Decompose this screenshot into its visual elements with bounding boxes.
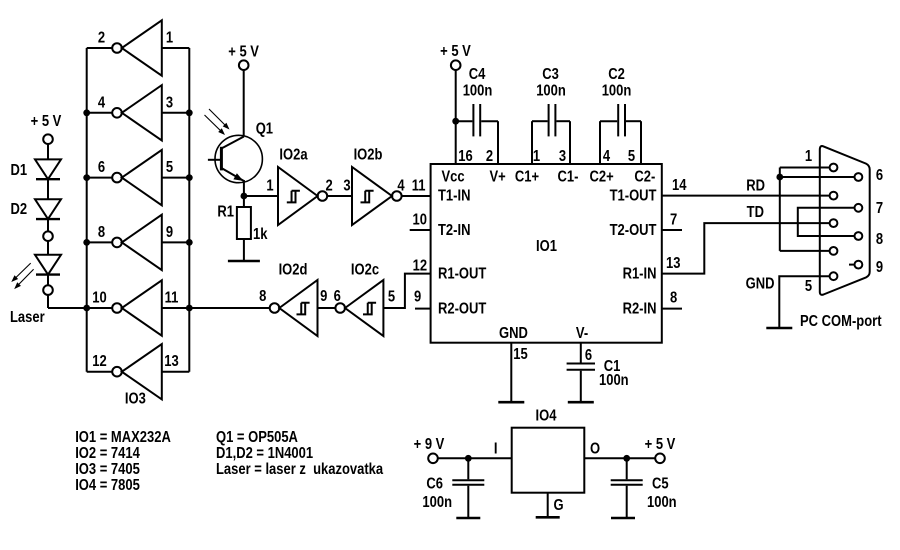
svg-text:11: 11: [412, 178, 426, 195]
svg-text:6: 6: [876, 167, 883, 184]
svg-text:100n: 100n: [599, 372, 629, 389]
svg-text:C2: C2: [608, 66, 625, 83]
svg-text:7: 7: [670, 212, 677, 229]
svg-text:5: 5: [388, 289, 395, 306]
svg-text:C1-: C1-: [558, 169, 579, 186]
svg-text:Q1 = OP505A: Q1 = OP505A: [216, 429, 298, 446]
svg-text:IO2 = 7414: IO2 = 7414: [75, 445, 140, 462]
svg-text:8: 8: [876, 231, 883, 248]
svg-text:5: 5: [166, 159, 173, 176]
svg-text:6: 6: [585, 347, 592, 364]
svg-text:Laser = laser z ukazovatka: Laser = laser z ukazovatka: [216, 461, 383, 478]
svg-text:5: 5: [805, 278, 812, 295]
svg-text:GND: GND: [499, 325, 528, 342]
svg-text:15: 15: [513, 346, 528, 363]
svg-text:11: 11: [165, 290, 179, 307]
svg-text:IO2c: IO2c: [351, 262, 379, 279]
svg-text:PC COM-port: PC COM-port: [800, 313, 882, 330]
svg-text:13: 13: [164, 353, 179, 370]
svg-text:+ 5 V: + 5 V: [31, 113, 62, 130]
svg-text:C4: C4: [469, 66, 486, 83]
svg-text:1: 1: [266, 178, 273, 195]
svg-text:3: 3: [166, 94, 173, 111]
svg-text:C1+: C1+: [515, 169, 539, 186]
svg-text:D2: D2: [11, 201, 28, 218]
svg-text:R2-OUT: R2-OUT: [438, 300, 487, 317]
svg-text:C2+: C2+: [590, 169, 614, 186]
svg-text:V+: V+: [489, 169, 505, 186]
svg-text:9: 9: [320, 288, 327, 305]
svg-text:10: 10: [412, 212, 427, 229]
svg-text:Vcc: Vcc: [441, 169, 464, 186]
svg-text:O: O: [590, 440, 600, 457]
svg-text:Laser: Laser: [10, 309, 45, 326]
svg-text:V-: V-: [576, 325, 589, 342]
svg-text:G: G: [554, 497, 564, 514]
svg-text:IO3: IO3: [125, 391, 146, 408]
svg-text:IO1 = MAX232A: IO1 = MAX232A: [75, 429, 171, 446]
svg-text:13: 13: [666, 255, 681, 272]
svg-text:R1: R1: [217, 204, 234, 221]
svg-text:+ 5 V: + 5 V: [228, 44, 259, 61]
svg-text:1: 1: [166, 30, 173, 47]
svg-text:5: 5: [628, 148, 635, 165]
svg-text:T1-IN: T1-IN: [438, 188, 470, 205]
svg-text:IO4: IO4: [536, 408, 557, 425]
svg-text:C3: C3: [542, 66, 559, 83]
svg-text:R1-OUT: R1-OUT: [438, 265, 487, 282]
svg-text:R1-IN: R1-IN: [623, 265, 657, 282]
svg-text:9: 9: [414, 289, 421, 306]
svg-text:16: 16: [458, 148, 473, 165]
svg-text:4: 4: [397, 178, 404, 195]
svg-text:9: 9: [166, 224, 173, 241]
svg-text:2: 2: [486, 148, 493, 165]
svg-text:IO2d: IO2d: [279, 262, 308, 279]
svg-text:100n: 100n: [602, 83, 632, 100]
svg-text:4: 4: [603, 148, 610, 165]
svg-text:+ 5 V: + 5 V: [440, 43, 471, 60]
svg-text:GND: GND: [746, 276, 775, 293]
svg-text:IO3 = 7405: IO3 = 7405: [75, 461, 140, 478]
svg-text:8: 8: [98, 224, 105, 241]
svg-text:100n: 100n: [647, 494, 677, 511]
svg-text:3: 3: [343, 178, 350, 195]
svg-text:9: 9: [876, 259, 883, 276]
svg-text:100n: 100n: [536, 83, 566, 100]
svg-text:4: 4: [98, 94, 105, 111]
svg-text:12: 12: [92, 353, 107, 370]
svg-text:T2-OUT: T2-OUT: [610, 222, 657, 239]
svg-text:D1: D1: [11, 162, 28, 179]
svg-text:IO2a: IO2a: [279, 147, 307, 164]
svg-text:Q1: Q1: [256, 121, 273, 138]
svg-text:IO1: IO1: [536, 238, 557, 255]
svg-text:I: I: [494, 440, 498, 457]
svg-text:+ 5 V: + 5 V: [645, 436, 676, 453]
svg-text:12: 12: [413, 258, 428, 275]
svg-text:C5: C5: [652, 476, 669, 493]
svg-text:C2-: C2-: [634, 169, 655, 186]
svg-text:8: 8: [259, 288, 266, 305]
svg-text:2: 2: [326, 178, 333, 195]
svg-text:IO2b: IO2b: [354, 147, 383, 164]
svg-text:1: 1: [805, 148, 812, 165]
svg-text:3: 3: [559, 148, 566, 165]
svg-text:TD: TD: [747, 204, 764, 221]
svg-text:IO4 = 7805: IO4 = 7805: [75, 477, 140, 494]
svg-text:R2-IN: R2-IN: [623, 300, 657, 317]
svg-text:10: 10: [92, 290, 107, 307]
svg-text:RD: RD: [746, 178, 765, 195]
svg-text:6: 6: [98, 159, 105, 176]
svg-text:7: 7: [876, 200, 883, 217]
svg-text:C6: C6: [426, 476, 443, 493]
svg-text:1: 1: [533, 148, 540, 165]
svg-text:D1,D2 = 1N4001: D1,D2 = 1N4001: [216, 445, 313, 462]
svg-text:100n: 100n: [422, 494, 452, 511]
svg-text:100n: 100n: [463, 83, 493, 100]
svg-text:8: 8: [670, 290, 677, 307]
svg-text:1k: 1k: [253, 226, 268, 243]
svg-text:T1-OUT: T1-OUT: [610, 188, 657, 205]
svg-text:2: 2: [98, 30, 105, 47]
svg-text:+ 9 V: + 9 V: [414, 436, 445, 453]
svg-text:T2-IN: T2-IN: [438, 222, 470, 239]
svg-text:14: 14: [672, 177, 687, 194]
